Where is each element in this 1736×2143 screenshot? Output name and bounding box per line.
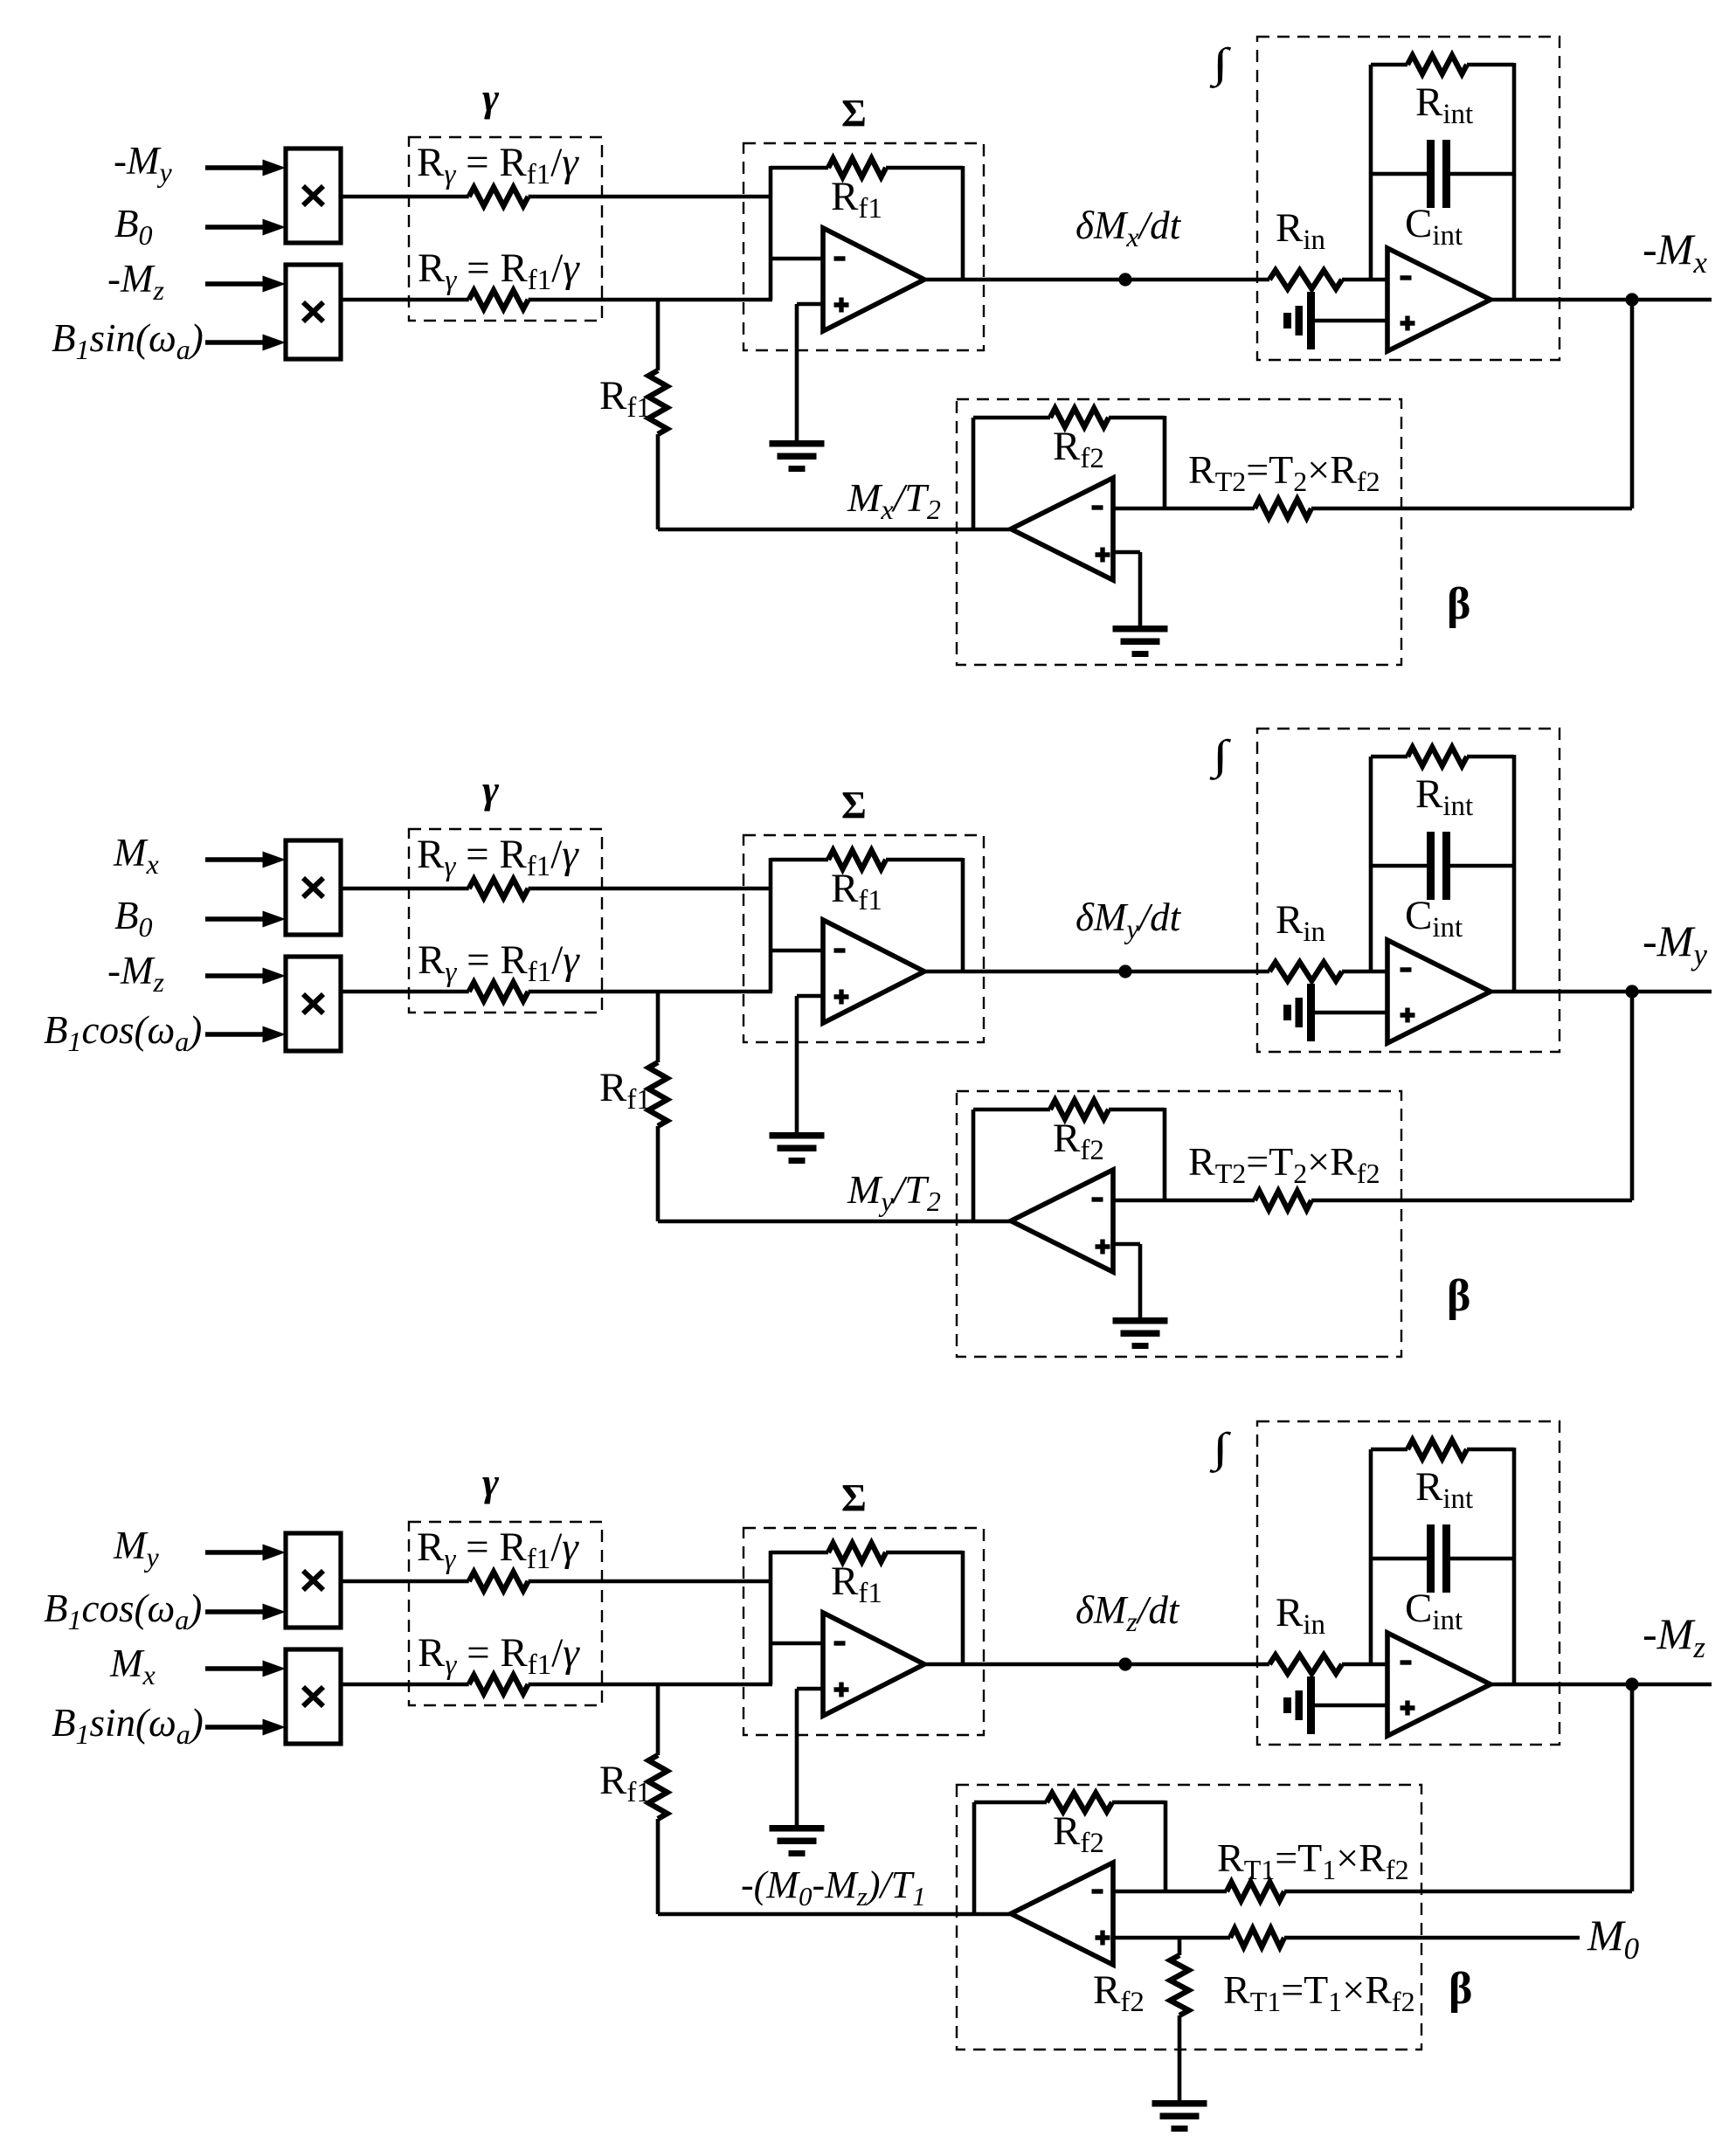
pin minus of U31 <box>834 1641 846 1645</box>
resistor RT2, block 2 <box>1255 1191 1311 1209</box>
label beta, block 2 <box>1447 1271 1470 1321</box>
wire integrator feedback right leg, block 2 <box>1512 755 1517 992</box>
value label RT1 = T1 x Rf2 (lower), block 3 <box>1223 1967 1415 2017</box>
wire beta plus input to ground, block 1 <box>1113 552 1140 627</box>
resistor RT2, block 1 <box>1255 499 1311 517</box>
wire beta output to summer input, block 3 <box>658 1912 1011 1917</box>
node label My/T2, block 2 <box>847 1167 941 1217</box>
wire Rf1 branch from lower wire, block 2 <box>656 992 661 1221</box>
resistor Rgamma lower, block 1 <box>469 290 529 308</box>
resistor Rf1 (summer input from beta), block 2 <box>648 1062 667 1126</box>
value label Rf1 (summer feedback), block 1 <box>831 174 882 225</box>
wire integrator plus input, block 2 <box>1315 1011 1387 1015</box>
value label Rint, block 1 <box>1415 79 1473 130</box>
resistor Rf1 feedback of summer, block 1 <box>828 158 886 176</box>
capacitor Cint, block 1 <box>1427 140 1450 208</box>
wire summer input bus, block 3 <box>769 1551 773 1684</box>
wire multiplier X3a output to summer <box>341 1580 771 1584</box>
svg-text:γ: γ <box>482 767 500 812</box>
multiplier X1b <box>286 265 341 359</box>
node output label -My, block 2 <box>1643 916 1707 971</box>
value label Cint, block 3 <box>1405 1586 1463 1636</box>
ground of integrator plus input, block 3 <box>1283 1676 1315 1734</box>
svg-text:Σ: Σ <box>841 92 867 135</box>
wire input arrow 1 of block 3 <box>205 1545 286 1561</box>
value label Rf2, block 2 <box>1053 1116 1104 1166</box>
label integral sign, block 1 <box>1210 40 1232 89</box>
wire output feedback down to RT1, block 3 <box>1630 1684 1635 1891</box>
resistor Rgamma upper, block 2 <box>469 879 529 897</box>
value label Rgamma = Rf1/gamma (upper), block 2 <box>417 832 579 882</box>
wire Rin to integrator minus input, block 3 <box>1342 1663 1387 1667</box>
wire summer output (delta wire), block 1 <box>924 278 1269 282</box>
node delta label, block 3 <box>1075 1588 1180 1637</box>
wire beta feedback loop, block 3 <box>974 1801 1165 1914</box>
resistor Rint, block 2 <box>1407 747 1467 765</box>
op-amp U22 (integrator), block 2 <box>1387 940 1490 1043</box>
integrator block (dashed box), block 2 <box>1257 729 1560 1052</box>
svg-text:γ: γ <box>482 1460 500 1504</box>
node M0 input label, block 3 <box>1587 1911 1640 1966</box>
wire Rin to integrator minus input, block 2 <box>1342 970 1387 974</box>
label gamma, block 2 <box>482 767 500 812</box>
value label Cint, block 2 <box>1405 893 1463 944</box>
wire summer plus input to ground, block 1 <box>797 304 823 442</box>
label Sigma, block 1 <box>841 92 867 135</box>
node junction dot on delta wire, block 1 <box>1118 273 1131 286</box>
wire summer output (delta wire), block 3 <box>924 1663 1269 1667</box>
svg-text:My/T2: My/T2 <box>847 1167 941 1217</box>
summer block Sigma (dashed box), block 1 <box>744 143 984 350</box>
wire summer feedback top, block 1 <box>771 166 963 280</box>
wire input arrow 1 of block 2 <box>205 852 286 868</box>
label gamma, block 3 <box>482 1460 500 1504</box>
wire beta output to summer input, block 1 <box>658 528 1011 532</box>
wire input arrow 4 of block 3 <box>205 1719 286 1736</box>
wire Rf1 branch from lower wire, block 1 <box>656 300 661 529</box>
value label Rf1 (summer feedback), block 2 <box>831 866 882 916</box>
value label Rin, block 3 <box>1276 1590 1325 1641</box>
integrator block (dashed box), block 3 <box>1257 1421 1560 1745</box>
node output label -Mz, block 3 <box>1643 1609 1705 1664</box>
resistor Rgamma upper, block 3 <box>469 1572 529 1590</box>
svg-text:Rγ = Rf1/γ: Rγ = Rf1/γ <box>418 937 580 988</box>
wire beta feedback loop, block 1 <box>973 416 1165 529</box>
wire summer input bus, block 2 <box>769 858 773 992</box>
wire beta feedback loop, block 2 <box>973 1108 1165 1221</box>
gamma coefficient block (dashed box), block 3 <box>409 1522 602 1705</box>
node junction dot on output, block 2 <box>1625 985 1638 998</box>
wire beta minus input, block 3 <box>1113 1890 1632 1894</box>
gamma coefficient block (dashed box), block 2 <box>409 829 602 1013</box>
wire Rf2 branch to ground, block 3 <box>1178 1938 1182 2102</box>
value label Rf1 (vertical resistor), block 3 <box>599 1758 651 1808</box>
op-amp U21 (summer), block 2 <box>823 920 924 1023</box>
wire Rin to integrator minus input, block 1 <box>1342 278 1387 282</box>
wire integrator feedback left leg, block 3 <box>1369 1449 1373 1664</box>
node junction dot on output, block 3 <box>1625 1677 1638 1690</box>
ground of integrator plus input, block 2 <box>1283 984 1315 1041</box>
wire summer feedback top, block 2 <box>771 858 963 971</box>
svg-text:γ: γ <box>482 75 500 120</box>
pin plus of U11 <box>834 298 849 313</box>
wire input arrow 4 of block 1 <box>205 335 286 351</box>
pin plus of U13 <box>1096 548 1110 563</box>
gamma coefficient block (dashed box), block 1 <box>409 137 602 321</box>
wire output feedback down to RT2, block 1 <box>1630 300 1635 508</box>
beta block (dashed box), block 3 <box>957 1785 1421 2050</box>
resistor RT1 (minus input), block 3 <box>1227 1882 1284 1900</box>
ground of integrator plus input, block 1 <box>1283 292 1315 349</box>
node B1cos(wa) (input label) <box>44 1008 202 1057</box>
svg-text:Σ: Σ <box>841 784 867 826</box>
wire input arrow 3 of block 1 <box>205 276 286 293</box>
pin plus of U23 <box>1096 1240 1110 1255</box>
wire integrator feedback top, block 1 <box>1371 63 1514 67</box>
node junction dot on output, block 1 <box>1625 293 1638 306</box>
resistor Rint, block 3 <box>1407 1440 1467 1458</box>
wire multiplier X1a output to summer <box>341 195 771 199</box>
wire output feedback down to RT2, block 2 <box>1630 992 1635 1200</box>
resistor Rf2 (plus input to ground), block 3 <box>1170 1955 1188 2015</box>
wire multiplier X3b output to summer <box>341 1683 772 1687</box>
node delta label, block 2 <box>1075 895 1182 944</box>
wire summer plus input to ground, block 2 <box>797 996 823 1134</box>
resistor Rf1 (summer input from beta), block 1 <box>648 370 667 434</box>
label beta, block 3 <box>1449 1964 1472 2014</box>
value label Rin, block 2 <box>1276 897 1325 948</box>
resistor Rint, block 1 <box>1407 55 1467 73</box>
value label Rf2 (grounding), block 3 <box>1093 1967 1145 2018</box>
wire capacitor branch, block 1 <box>1371 172 1514 176</box>
wire integrator feedback right leg, block 3 <box>1512 1448 1517 1684</box>
svg-text:Rγ = Rf1/γ: Rγ = Rf1/γ <box>417 832 579 882</box>
value label Rf2, block 1 <box>1053 424 1104 474</box>
pin minus of U32 <box>1401 1660 1412 1664</box>
op-amp U13 (beta divider), block 1 <box>1011 478 1113 580</box>
wire beta plus input, block 3 <box>1113 1936 1580 1940</box>
svg-text:-(M0-Mz)/T1: -(M0-Mz)/T1 <box>741 1863 926 1911</box>
pin minus of U13 <box>1092 505 1103 509</box>
pin minus of U12 <box>1401 275 1412 280</box>
pin plus of U21 <box>834 990 849 1005</box>
node B0 (input label) <box>114 894 153 943</box>
value label Rf2 (feedback), block 3 <box>1053 1808 1104 1859</box>
value label Rgamma = Rf1/gamma (upper), block 3 <box>417 1524 579 1575</box>
wire integrator output -My, block 2 <box>1490 990 1712 994</box>
wire multiplier X2b output to summer <box>341 990 772 994</box>
wire summer feedback top, block 3 <box>771 1551 963 1664</box>
node B1sin(wa) (input label) <box>52 1701 204 1750</box>
pin minus of U23 <box>1092 1197 1103 1201</box>
wire summer plus input to ground, block 3 <box>797 1689 823 1827</box>
wire input arrow 1 of block 1 <box>205 160 286 176</box>
svg-text:Σ: Σ <box>841 1476 867 1519</box>
node B0 (input label) <box>114 202 153 251</box>
value label RT2 = T2 x Rf2, block 1 <box>1188 447 1380 497</box>
op-amp U11 (summer), block 1 <box>823 228 924 331</box>
wire integrator plus input, block 1 <box>1315 319 1387 323</box>
resistor Rgamma lower, block 2 <box>469 982 529 1000</box>
wire summer output (delta wire), block 2 <box>924 970 1269 974</box>
node output label -Mx, block 1 <box>1643 225 1707 280</box>
svg-text:β: β <box>1449 1964 1472 2014</box>
wire input arrow 2 of block 3 <box>205 1604 286 1621</box>
wire beta minus input, block 2 <box>1113 1199 1632 1203</box>
svg-text:Rγ = Rf1/γ: Rγ = Rf1/γ <box>417 140 579 190</box>
multiplier X3a <box>286 1533 341 1628</box>
wire input arrow 3 of block 3 <box>205 1661 286 1677</box>
node B1cos(wa) (input label) <box>44 1587 202 1635</box>
label Sigma, block 2 <box>841 784 867 826</box>
svg-text:β: β <box>1447 579 1470 629</box>
node My (input label) <box>113 1524 160 1573</box>
wire summer minus input, block 2 <box>771 949 823 953</box>
wire capacitor branch, block 3 <box>1371 1557 1514 1561</box>
pin plus of U22 <box>1401 1008 1415 1023</box>
op-amp U31 (summer), block 3 <box>823 1613 924 1716</box>
ground of summer plus input, block 2 <box>770 1132 825 1164</box>
svg-text:Rγ = Rf1/γ: Rγ = Rf1/γ <box>418 245 580 296</box>
pin minus of U22 <box>1401 967 1412 971</box>
wire beta output to summer input, block 2 <box>658 1220 1011 1224</box>
wire input arrow 4 of block 2 <box>205 1027 286 1043</box>
wire summer minus input, block 1 <box>771 257 823 261</box>
wire capacitor branch, block 2 <box>1371 864 1514 868</box>
node Mx (input label) <box>109 1642 156 1690</box>
value label RT2 = T2 x Rf2, block 2 <box>1188 1139 1380 1189</box>
node -Mz (input label) <box>107 257 164 306</box>
resistor Rin, block 1 <box>1269 270 1342 288</box>
summer block Sigma (dashed box), block 3 <box>744 1528 984 1735</box>
pin plus of U31 <box>834 1683 849 1697</box>
wire beta minus input, block 1 <box>1113 507 1632 511</box>
label integral sign, block 3 <box>1210 1425 1232 1474</box>
svg-text:β: β <box>1447 1271 1470 1321</box>
wire integrator output -Mx, block 1 <box>1490 298 1712 302</box>
multiplier X1a <box>286 149 341 243</box>
resistor Rf1 (summer input from beta), block 3 <box>648 1755 667 1819</box>
svg-text:Mx/T2: Mx/T2 <box>847 475 941 525</box>
wire integrator feedback left leg, block 1 <box>1369 65 1373 280</box>
value label Cint, block 1 <box>1405 201 1463 252</box>
beta block (dashed box), block 2 <box>957 1091 1401 1357</box>
resistor Rf2 feedback, block 1 <box>1050 408 1109 426</box>
resistor Rf1 feedback of summer, block 3 <box>828 1543 886 1561</box>
wire multiplier X1b output to summer <box>341 298 772 302</box>
summer block Sigma (dashed box), block 2 <box>744 835 984 1042</box>
node junction dot on delta wire, block 3 <box>1118 1657 1131 1670</box>
node -Mz (input label) <box>107 949 164 998</box>
capacitor Cint, block 3 <box>1427 1524 1450 1593</box>
value label Rgamma = Rf1/gamma (upper), block 1 <box>417 140 579 190</box>
wire input arrow 3 of block 2 <box>205 968 286 985</box>
wire Rf1 branch from lower wire, block 3 <box>656 1684 661 1914</box>
ground of beta plus divider, block 3 <box>1152 2100 1207 2132</box>
resistor Rf1 feedback of summer, block 2 <box>828 850 886 868</box>
pin minus of U33 <box>1092 1889 1103 1893</box>
wire input arrow 2 of block 1 <box>205 219 286 236</box>
pin minus of U21 <box>834 948 846 952</box>
value label Rgamma = Rf1/gamma (lower), block 3 <box>418 1630 580 1681</box>
resistor Rgamma lower, block 3 <box>469 1675 529 1693</box>
value label Rint, block 3 <box>1415 1464 1473 1515</box>
value label Rf1 (vertical resistor), block 1 <box>599 373 651 424</box>
label gamma, block 1 <box>482 75 500 120</box>
value label Rgamma = Rf1/gamma (lower), block 2 <box>418 937 580 988</box>
wire integrator feedback top, block 3 <box>1371 1448 1514 1452</box>
resistor Rf2 feedback, block 3 <box>1047 1793 1112 1811</box>
pin plus of U33 <box>1096 1931 1110 1946</box>
op-amp U12 (integrator), block 1 <box>1387 248 1490 351</box>
ground of beta plus input, block 1 <box>1113 626 1168 657</box>
multiplier X2b <box>286 957 341 1051</box>
node B1sin(wa) (input label) <box>52 316 204 365</box>
label Sigma, block 3 <box>841 1476 867 1519</box>
value label Rgamma = Rf1/gamma (lower), block 1 <box>418 245 580 296</box>
resistor Rgamma upper, block 1 <box>469 187 529 205</box>
resistor Rin, block 2 <box>1269 962 1342 980</box>
capacitor Cint, block 2 <box>1427 832 1450 900</box>
ground of beta plus input, block 2 <box>1113 1317 1168 1349</box>
node label -(M0-Mz)/T1, block 3 <box>741 1863 926 1911</box>
wire summer input bus, block 1 <box>769 166 773 300</box>
beta block (dashed box), block 1 <box>957 399 1401 665</box>
resistor Rin, block 3 <box>1269 1655 1342 1673</box>
label beta, block 1 <box>1447 579 1470 629</box>
op-amp U23 (beta divider), block 2 <box>1011 1170 1113 1272</box>
node Mx (input label) <box>113 831 159 880</box>
resistor Rf2 feedback, block 2 <box>1050 1100 1109 1118</box>
wire input arrow 2 of block 2 <box>205 911 286 928</box>
pin minus of U11 <box>834 256 846 260</box>
multiplier X2a <box>286 840 341 935</box>
resistor RT1 (plus input), block 3 <box>1230 1928 1284 1946</box>
value label Rf1 (summer feedback), block 3 <box>831 1559 882 1609</box>
svg-text:Rγ = Rf1/γ: Rγ = Rf1/γ <box>418 1630 580 1681</box>
value label Rin, block 1 <box>1276 205 1325 256</box>
pin plus of U32 <box>1401 1701 1415 1716</box>
wire integrator feedback top, block 2 <box>1371 755 1514 759</box>
ground of summer plus input, block 1 <box>770 440 825 472</box>
integrator block (dashed box), block 1 <box>1257 37 1560 360</box>
wire integrator feedback right leg, block 1 <box>1512 63 1517 300</box>
wire integrator plus input, block 3 <box>1315 1704 1387 1708</box>
node junction dot on delta wire, block 2 <box>1118 964 1131 978</box>
node delta label, block 1 <box>1075 204 1182 252</box>
value label Rf1 (vertical resistor), block 2 <box>599 1065 651 1116</box>
value label RT1 = T1 x Rf2 (upper), block 3 <box>1217 1835 1409 1885</box>
wire integrator output -Mz, block 3 <box>1490 1683 1712 1687</box>
wire beta plus input to ground, block 2 <box>1113 1244 1140 1319</box>
value label Rint, block 2 <box>1415 771 1473 822</box>
svg-text:Rγ = Rf1/γ: Rγ = Rf1/γ <box>417 1524 579 1575</box>
pin plus of U12 <box>1401 316 1415 331</box>
node label Mx/T2, block 1 <box>847 475 941 525</box>
op-amp U32 (integrator), block 3 <box>1387 1633 1490 1736</box>
multiplier X3b <box>286 1649 341 1744</box>
ground of summer plus input, block 3 <box>770 1825 825 1856</box>
label integral sign, block 2 <box>1210 732 1232 781</box>
wire integrator feedback left leg, block 2 <box>1369 757 1373 971</box>
wire multiplier X2a output to summer <box>341 887 771 891</box>
op-amp U33 (beta divider), block 3 <box>1011 1863 1113 1965</box>
node -My (input label) <box>114 139 172 188</box>
wire summer minus input, block 3 <box>771 1642 823 1646</box>
